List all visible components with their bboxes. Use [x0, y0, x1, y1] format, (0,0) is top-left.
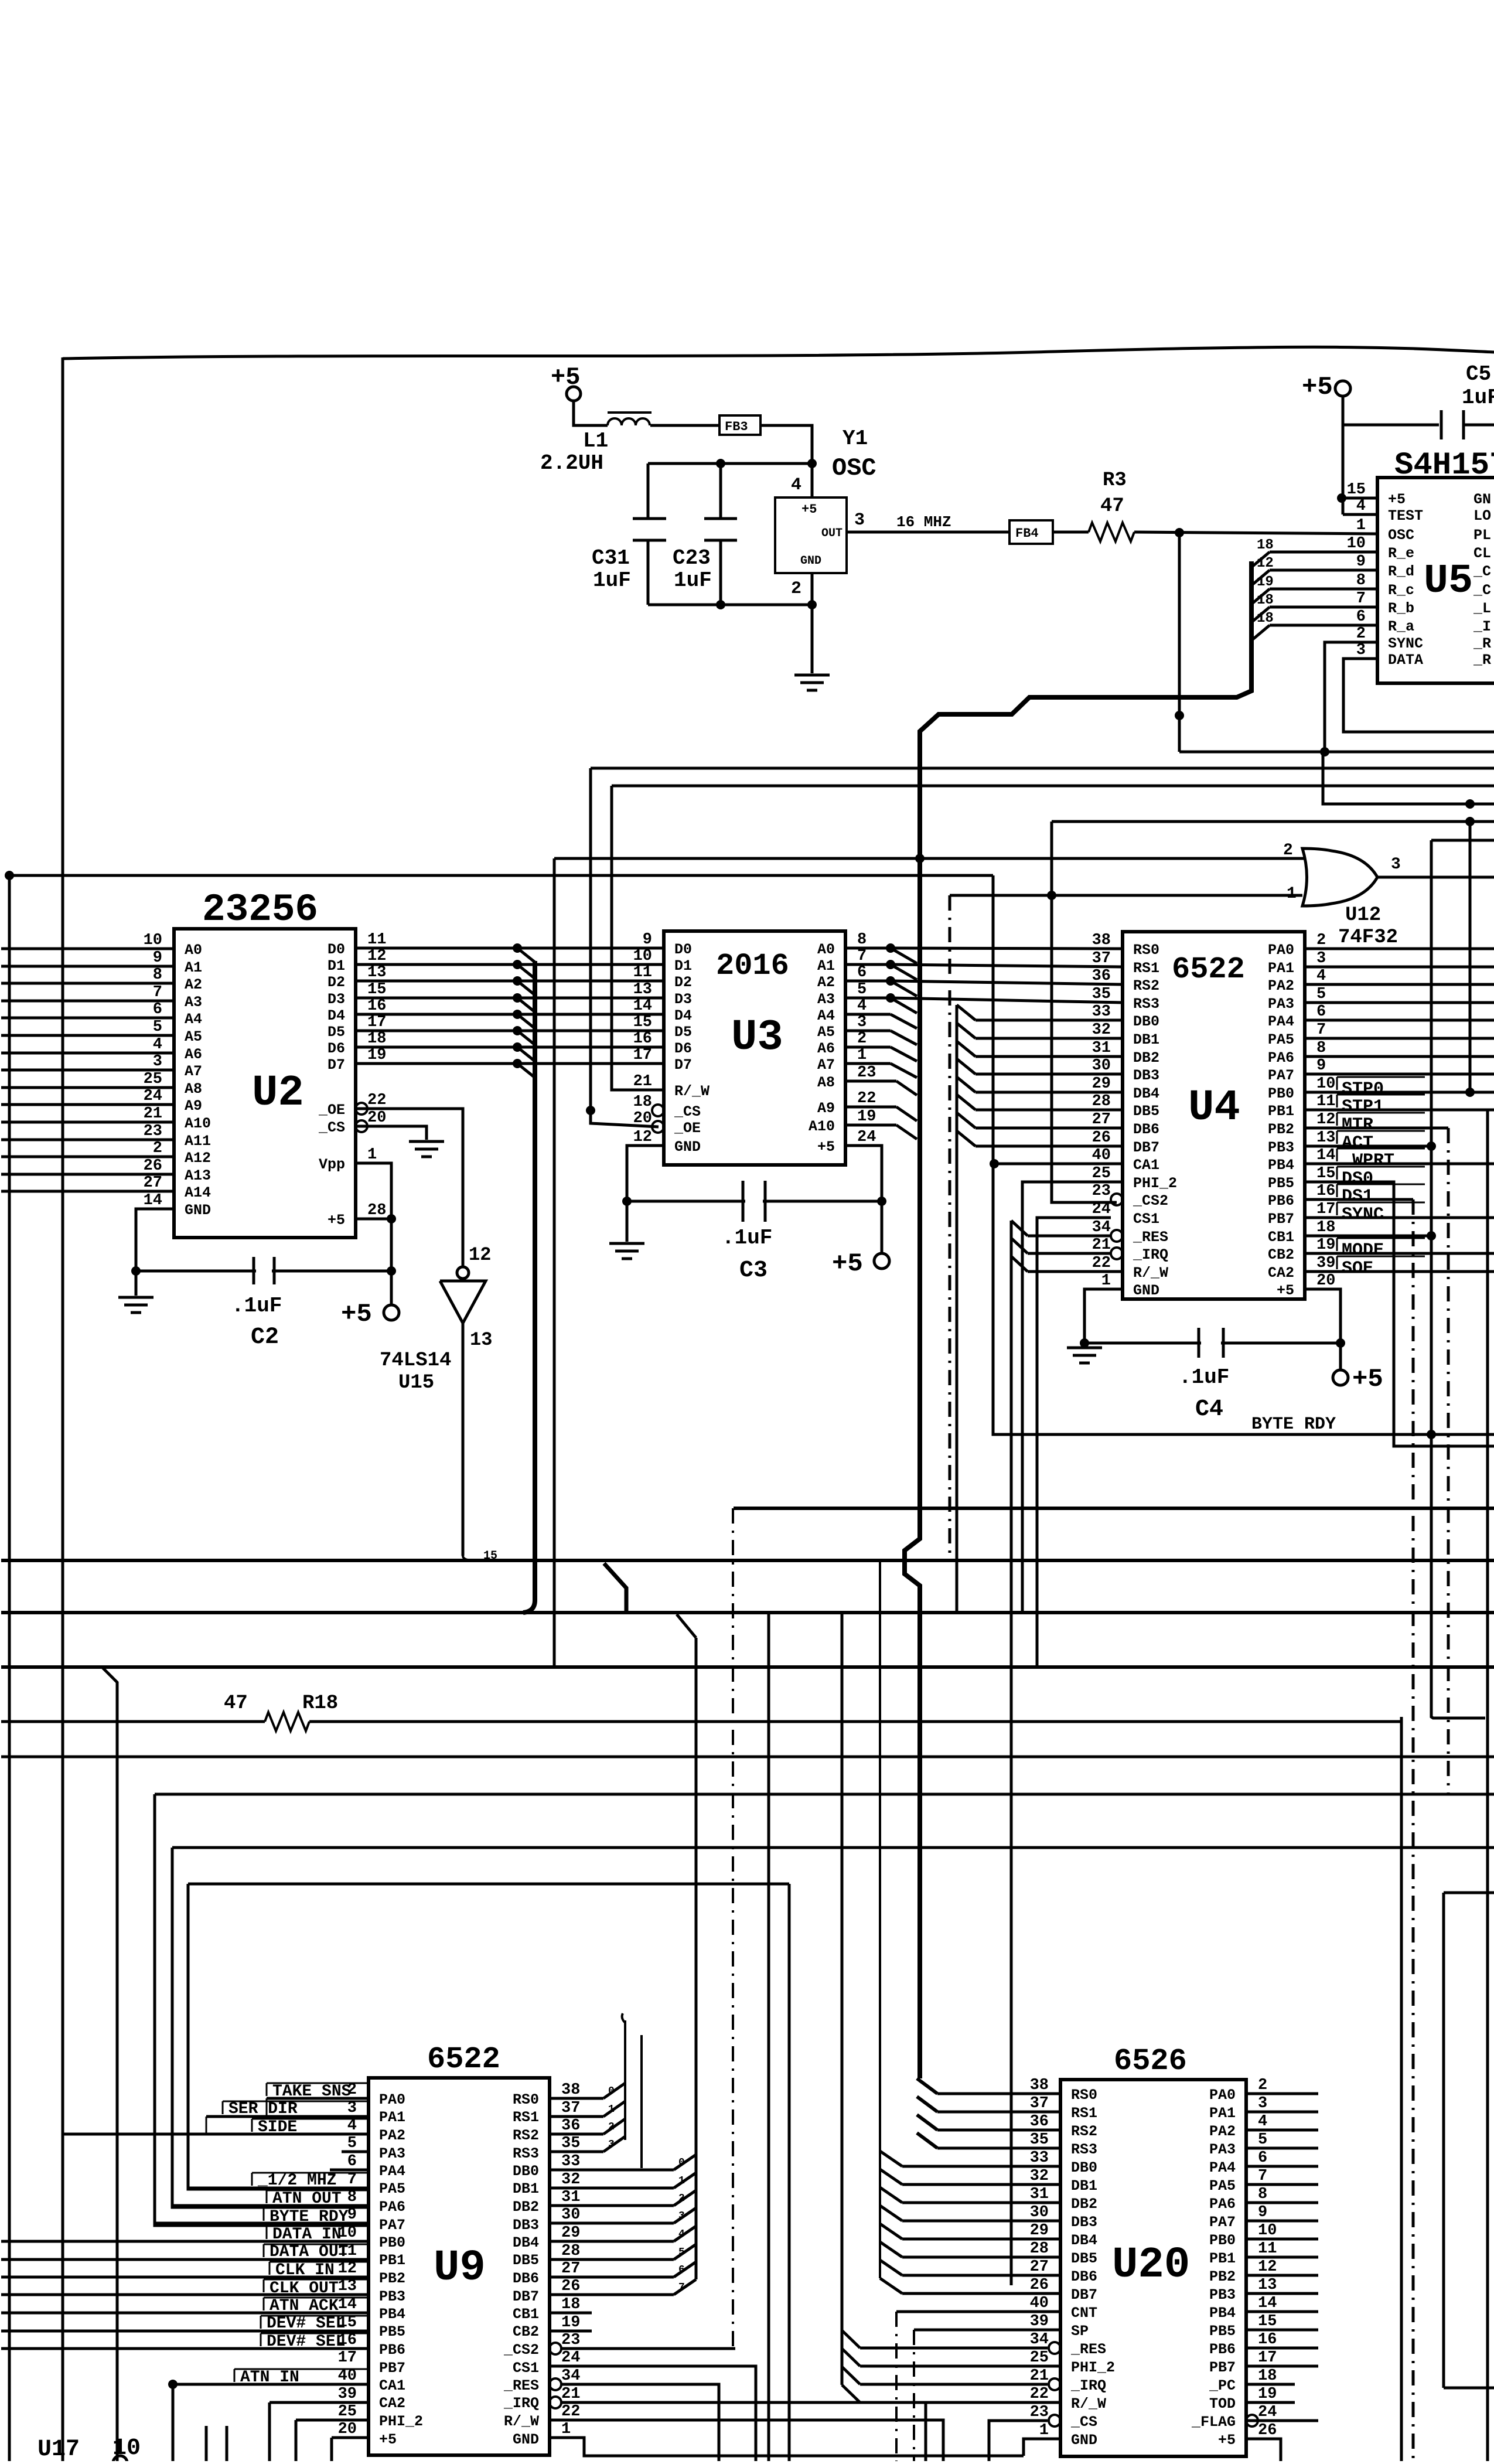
svg-text:1: 1 [367, 1146, 377, 1164]
svg-text:22: 22 [561, 2403, 580, 2421]
svg-text:A8: A8 [817, 1074, 835, 1091]
svg-text:22: 22 [1092, 1255, 1111, 1272]
svg-text:OSC: OSC [832, 454, 876, 482]
svg-text:DB5: DB5 [1071, 2250, 1097, 2267]
svg-text:13: 13 [367, 964, 386, 981]
svg-text:2: 2 [1283, 841, 1293, 860]
svg-text:19: 19 [857, 1108, 876, 1126]
svg-text:4: 4 [1258, 2113, 1267, 2131]
svg-text:SP: SP [1071, 2323, 1089, 2340]
svg-text:28: 28 [561, 2243, 580, 2260]
svg-text:D0: D0 [674, 941, 692, 958]
svg-text:21: 21 [633, 1073, 652, 1090]
svg-text:PA3: PA3 [1209, 2141, 1236, 2158]
svg-text:CB2: CB2 [1268, 1246, 1294, 1263]
svg-text:PA0: PA0 [1209, 2087, 1236, 2104]
svg-text:PB7: PB7 [379, 2360, 405, 2377]
svg-text:26: 26 [1258, 2422, 1277, 2439]
svg-text:RS3: RS3 [1071, 2141, 1097, 2158]
svg-text:3: 3 [1356, 642, 1366, 659]
svg-text:2: 2 [1258, 2077, 1267, 2094]
svg-text:_CS2: _CS2 [1133, 1192, 1168, 1209]
svg-text:R_e: R_e [1388, 545, 1414, 562]
svg-text:19: 19 [1257, 574, 1274, 590]
svg-text:R3: R3 [1103, 469, 1127, 492]
svg-text:TEST: TEST [1388, 507, 1423, 524]
svg-text:7: 7 [1316, 1021, 1326, 1039]
svg-text:27: 27 [144, 1174, 162, 1192]
svg-text:DB3: DB3 [1133, 1067, 1159, 1084]
svg-text:.1uF: .1uF [1179, 1365, 1229, 1389]
svg-text:PA5: PA5 [1268, 1031, 1294, 1048]
svg-text:A13: A13 [185, 1167, 211, 1184]
svg-text:35: 35 [1092, 986, 1111, 1003]
svg-text:38: 38 [1030, 2077, 1049, 2094]
svg-text:D2: D2 [674, 974, 692, 991]
svg-text:_R: _R [1473, 635, 1491, 652]
svg-text:Y1: Y1 [842, 427, 868, 451]
svg-text:10: 10 [633, 948, 652, 965]
svg-text:1uF: 1uF [1462, 386, 1494, 410]
svg-text:RS3: RS3 [1133, 996, 1159, 1013]
svg-text:_IRQ: _IRQ [1133, 1246, 1168, 1263]
svg-text:8: 8 [1356, 572, 1366, 589]
svg-text:47: 47 [224, 1692, 248, 1715]
svg-text:PHI_2: PHI_2 [1071, 2359, 1115, 2376]
svg-text:22: 22 [1030, 2385, 1049, 2403]
svg-text:_R: _R [1473, 652, 1491, 669]
svg-text:28: 28 [367, 1202, 386, 1219]
svg-text:CLK OUT: CLK OUT [270, 2279, 339, 2298]
svg-text:+5: +5 [328, 1212, 345, 1229]
svg-text:RS0: RS0 [1071, 2087, 1097, 2104]
svg-text:15: 15 [1258, 2313, 1277, 2330]
svg-text:D0: D0 [328, 941, 345, 958]
svg-text:SER DIR: SER DIR [228, 2100, 298, 2118]
svg-text:9: 9 [1356, 553, 1366, 571]
svg-text:PA5: PA5 [1209, 2177, 1236, 2194]
svg-text:D7: D7 [328, 1057, 345, 1073]
svg-text:15: 15 [1316, 1165, 1335, 1182]
svg-text:BYTE RDY: BYTE RDY [270, 2208, 349, 2226]
svg-text:8: 8 [153, 966, 162, 984]
svg-text:27: 27 [561, 2260, 580, 2278]
svg-text:5: 5 [153, 1018, 162, 1036]
svg-text:25: 25 [1092, 1165, 1111, 1182]
svg-text:DB6: DB6 [513, 2270, 539, 2287]
svg-text:32: 32 [561, 2171, 580, 2189]
svg-text:DB1: DB1 [513, 2180, 539, 2197]
svg-text:SIDE: SIDE [258, 2118, 297, 2136]
svg-text:32: 32 [1092, 1021, 1111, 1039]
svg-text:47: 47 [1100, 495, 1124, 517]
svg-text:16: 16 [1258, 2331, 1277, 2349]
svg-text:3: 3 [854, 510, 865, 530]
svg-text:36: 36 [561, 2117, 580, 2135]
svg-text:_1/2 MHZ: _1/2 MHZ [257, 2172, 336, 2190]
svg-text:A4: A4 [185, 1011, 202, 1028]
svg-text:C2: C2 [251, 1324, 279, 1351]
svg-text:DB0: DB0 [1133, 1013, 1159, 1030]
svg-text:25: 25 [144, 1071, 162, 1088]
svg-text:12: 12 [469, 1244, 491, 1266]
svg-text:A3: A3 [185, 994, 202, 1011]
svg-text:A9: A9 [817, 1100, 835, 1117]
svg-text:OSC: OSC [1388, 527, 1414, 544]
svg-text:PA0: PA0 [379, 2091, 405, 2108]
svg-text:A0: A0 [817, 941, 835, 958]
svg-text:23: 23 [561, 2332, 580, 2349]
svg-text:2016: 2016 [716, 949, 789, 983]
svg-text:A1: A1 [185, 959, 202, 976]
svg-text:+5: +5 [1218, 2432, 1236, 2449]
svg-text:A5: A5 [817, 1024, 835, 1041]
svg-text:D1: D1 [328, 957, 345, 974]
svg-text:15: 15 [1347, 481, 1366, 499]
svg-text:4: 4 [1316, 967, 1326, 985]
svg-text:17: 17 [338, 2349, 357, 2367]
svg-text:_RES: _RES [503, 2377, 539, 2394]
svg-text:CB1: CB1 [513, 2306, 539, 2323]
svg-text:23: 23 [144, 1123, 162, 1140]
svg-text:26: 26 [1030, 2276, 1049, 2294]
svg-text:23256: 23256 [202, 888, 318, 932]
svg-text:ACT: ACT [1342, 1133, 1373, 1153]
svg-text:25: 25 [338, 2403, 357, 2421]
svg-text:PA1: PA1 [379, 2109, 405, 2126]
svg-text:16: 16 [633, 1030, 652, 1048]
svg-text:A2: A2 [817, 974, 835, 991]
svg-text:18: 18 [633, 1093, 652, 1111]
svg-text:D6: D6 [674, 1040, 692, 1057]
svg-text:1: 1 [1356, 517, 1366, 534]
svg-text:A6: A6 [817, 1040, 835, 1057]
svg-text:39: 39 [338, 2385, 357, 2403]
svg-text:36: 36 [1092, 967, 1111, 985]
svg-text:D7: D7 [674, 1057, 692, 1073]
svg-text:CA1: CA1 [1133, 1157, 1159, 1174]
svg-text:C23: C23 [673, 546, 711, 570]
svg-text:24: 24 [144, 1088, 162, 1105]
svg-text:R/_W: R/_W [674, 1083, 710, 1100]
svg-text:U15: U15 [398, 1372, 434, 1394]
svg-text:29: 29 [1092, 1075, 1111, 1093]
svg-text:6526: 6526 [1114, 2044, 1187, 2078]
svg-text:13: 13 [1316, 1129, 1335, 1147]
svg-text:U12: U12 [1345, 904, 1381, 926]
svg-text:PB5: PB5 [379, 2323, 405, 2340]
svg-text:20: 20 [338, 2421, 357, 2438]
svg-text:39: 39 [1316, 1255, 1335, 1272]
svg-text:20: 20 [1316, 1272, 1335, 1290]
svg-text:R_b: R_b [1388, 600, 1414, 617]
svg-text:3: 3 [1316, 950, 1326, 967]
svg-text:18: 18 [561, 2296, 580, 2313]
svg-text:1uF: 1uF [593, 568, 631, 592]
svg-text:17: 17 [633, 1047, 652, 1064]
svg-text:1: 1 [1287, 885, 1297, 903]
svg-text:PA6: PA6 [1268, 1049, 1294, 1066]
svg-text:5: 5 [857, 981, 867, 998]
svg-text:PB5: PB5 [1268, 1175, 1294, 1192]
svg-text:15: 15 [633, 1014, 652, 1031]
svg-text:C31: C31 [592, 546, 630, 570]
svg-text:29: 29 [1030, 2222, 1049, 2240]
svg-text:C5: C5 [1466, 362, 1491, 386]
svg-text:FB4: FB4 [1015, 526, 1039, 541]
svg-text:74LS14: 74LS14 [380, 1349, 451, 1372]
svg-text:19: 19 [561, 2314, 580, 2332]
svg-text:11: 11 [367, 931, 386, 949]
svg-text:A0: A0 [185, 942, 202, 959]
svg-text:37: 37 [561, 2100, 580, 2117]
svg-text:DS0: DS0 [1342, 1169, 1373, 1189]
svg-text:1: 1 [857, 1047, 867, 1064]
svg-text:1: 1 [608, 2104, 615, 2115]
svg-text:CL: CL [1473, 545, 1491, 562]
svg-text:DATA: DATA [1388, 652, 1423, 669]
svg-text:DB2: DB2 [1133, 1049, 1159, 1066]
svg-text:11: 11 [633, 964, 652, 981]
svg-text:34: 34 [561, 2367, 580, 2385]
svg-text:16 MHZ: 16 MHZ [896, 513, 951, 531]
svg-text:CS1: CS1 [513, 2360, 539, 2377]
svg-text:.1uF: .1uF [231, 1294, 282, 1318]
svg-text:34: 34 [1030, 2331, 1049, 2349]
svg-text:28: 28 [1030, 2240, 1049, 2258]
svg-text:7: 7 [1258, 2167, 1267, 2185]
svg-text:DB0: DB0 [513, 2163, 539, 2180]
svg-text:2: 2 [791, 579, 801, 599]
svg-text:D1: D1 [674, 957, 692, 974]
svg-text:+5: +5 [341, 1300, 372, 1329]
svg-text:C4: C4 [1195, 1396, 1223, 1423]
svg-text:PB1: PB1 [1209, 2250, 1236, 2267]
svg-text:PA2: PA2 [1268, 977, 1294, 994]
svg-text:R_d: R_d [1388, 563, 1414, 580]
svg-text:2.2UH: 2.2UH [540, 451, 603, 475]
svg-text:+5: +5 [1277, 1282, 1294, 1299]
svg-text:D5: D5 [674, 1024, 692, 1041]
svg-text:22: 22 [857, 1090, 876, 1107]
svg-text:_CS: _CS [1070, 2414, 1097, 2431]
svg-text:DB7: DB7 [1133, 1139, 1159, 1156]
svg-text:PB6: PB6 [379, 2342, 405, 2359]
svg-text:PB4: PB4 [1209, 2305, 1236, 2322]
svg-text:+5: +5 [1302, 373, 1333, 402]
svg-text:8: 8 [1316, 1040, 1326, 1057]
svg-text:_IRQ: _IRQ [1070, 2377, 1106, 2394]
svg-text:SYNC: SYNC [1388, 635, 1423, 652]
svg-text:PB0: PB0 [1209, 2232, 1236, 2249]
svg-text:A5: A5 [185, 1028, 202, 1045]
svg-text:10: 10 [1347, 535, 1366, 553]
svg-text:_OE: _OE [318, 1102, 345, 1119]
svg-text:4: 4 [678, 2228, 685, 2240]
svg-text:SOE: SOE [1342, 1259, 1373, 1279]
svg-text:18: 18 [1257, 611, 1274, 626]
svg-text:CNT: CNT [1071, 2305, 1097, 2322]
svg-text:2: 2 [153, 1140, 162, 1157]
svg-text:6522: 6522 [1172, 952, 1245, 987]
svg-text:29: 29 [561, 2224, 580, 2242]
svg-text:CB2: CB2 [513, 2323, 539, 2340]
svg-text:PB3: PB3 [1209, 2286, 1236, 2303]
svg-text:DB5: DB5 [513, 2252, 539, 2269]
svg-text:30: 30 [561, 2206, 580, 2224]
svg-text:A7: A7 [817, 1057, 835, 1073]
svg-text:6: 6 [1316, 1003, 1326, 1021]
svg-text:2: 2 [857, 1030, 867, 1048]
svg-text:A12: A12 [185, 1150, 211, 1167]
svg-text:DB7: DB7 [513, 2288, 539, 2305]
svg-text:DB7: DB7 [1071, 2286, 1097, 2303]
svg-text:38: 38 [561, 2081, 580, 2099]
svg-text:35: 35 [1030, 2131, 1049, 2149]
svg-text:BYTE RDY: BYTE RDY [1251, 1415, 1336, 1434]
svg-text:3: 3 [678, 2210, 685, 2222]
svg-text:GND: GND [800, 554, 821, 568]
svg-text:36: 36 [1030, 2113, 1049, 2131]
svg-text:PA4: PA4 [1209, 2159, 1236, 2176]
svg-text:25: 25 [1030, 2349, 1049, 2367]
svg-text:DEV# SEL: DEV# SEL [267, 2315, 345, 2333]
svg-text:DATA IN: DATA IN [272, 2226, 342, 2244]
svg-text:STP1: STP1 [1342, 1097, 1384, 1117]
svg-text:40: 40 [1030, 2295, 1049, 2312]
svg-text:_RES: _RES [1133, 1229, 1168, 1246]
svg-text:A10: A10 [809, 1118, 835, 1135]
svg-text:8: 8 [1258, 2186, 1267, 2203]
svg-text:GND: GND [1133, 1282, 1159, 1299]
svg-text:32: 32 [1030, 2167, 1049, 2185]
svg-text:6: 6 [1356, 608, 1366, 626]
svg-text:19: 19 [367, 1047, 386, 1064]
svg-text:A2: A2 [185, 976, 202, 993]
svg-text:12: 12 [1257, 555, 1274, 571]
svg-text:U2: U2 [252, 1069, 304, 1118]
svg-text:U4: U4 [1188, 1083, 1240, 1133]
svg-text:A1: A1 [817, 957, 835, 974]
svg-text:1: 1 [561, 2421, 571, 2438]
svg-text:6: 6 [1258, 2149, 1267, 2167]
svg-text:3: 3 [153, 1053, 162, 1071]
svg-text:PA4: PA4 [379, 2163, 405, 2180]
svg-text:PA2: PA2 [1209, 2123, 1236, 2140]
svg-text:STP0: STP0 [1342, 1079, 1384, 1099]
svg-text:Vpp: Vpp [319, 1156, 345, 1173]
svg-text:_I: _I [1473, 618, 1491, 635]
svg-text:4: 4 [1356, 497, 1366, 515]
svg-text:31: 31 [1030, 2186, 1049, 2203]
svg-text:A3: A3 [817, 991, 835, 1008]
svg-text:U9: U9 [434, 2244, 486, 2293]
svg-text:DB2: DB2 [1071, 2196, 1097, 2213]
svg-text:9: 9 [1258, 2204, 1267, 2221]
svg-text:ATN ACK: ATN ACK [270, 2297, 339, 2315]
svg-text:_L: _L [1473, 600, 1491, 617]
svg-text:PB5: PB5 [1209, 2323, 1236, 2340]
svg-text:10: 10 [112, 2435, 141, 2461]
svg-text:_WPRT: _WPRT [1341, 1151, 1394, 1171]
svg-text:1: 1 [678, 2175, 685, 2187]
svg-text:DB5: DB5 [1133, 1103, 1159, 1120]
svg-text:+5: +5 [1388, 491, 1406, 508]
svg-text:RS1: RS1 [513, 2109, 539, 2126]
svg-text:PB1: PB1 [379, 2252, 405, 2269]
svg-text:18: 18 [1257, 537, 1274, 553]
svg-text:+5: +5 [817, 1139, 835, 1156]
svg-text:D5: D5 [328, 1024, 345, 1041]
svg-text:+5: +5 [1352, 1365, 1383, 1394]
svg-text:27: 27 [1092, 1111, 1111, 1129]
svg-text:U17: U17 [37, 2436, 80, 2461]
svg-text:GND: GND [674, 1139, 701, 1156]
svg-text:15: 15 [367, 981, 386, 998]
svg-text:13: 13 [470, 1329, 492, 1351]
svg-text:RS1: RS1 [1133, 960, 1159, 977]
svg-text:PA7: PA7 [1268, 1067, 1294, 1084]
svg-text:14: 14 [144, 1192, 162, 1209]
svg-text:35: 35 [561, 2135, 580, 2152]
svg-text:LO: LO [1473, 507, 1491, 524]
svg-text:38: 38 [1092, 932, 1111, 949]
svg-text:PA5: PA5 [379, 2180, 405, 2197]
svg-text:0: 0 [608, 2085, 615, 2097]
svg-text:_PC: _PC [1209, 2377, 1236, 2394]
svg-text:4: 4 [857, 997, 867, 1015]
svg-text:PB2: PB2 [379, 2270, 405, 2287]
svg-text:PB7: PB7 [1268, 1211, 1294, 1228]
svg-text:+5: +5 [801, 502, 817, 517]
svg-text:_RES: _RES [1070, 2341, 1106, 2358]
svg-text:18: 18 [1257, 592, 1274, 608]
svg-text:PL: PL [1473, 527, 1491, 544]
svg-text:A4: A4 [817, 1007, 835, 1024]
svg-text:2: 2 [678, 2193, 685, 2204]
svg-text:28: 28 [1092, 1093, 1111, 1110]
svg-text:17: 17 [1316, 1201, 1335, 1218]
svg-text:1uF: 1uF [674, 568, 712, 592]
svg-text:RS2: RS2 [1071, 2123, 1097, 2140]
svg-text:R/_W: R/_W [1071, 2395, 1106, 2412]
svg-text:6522: 6522 [427, 2042, 500, 2077]
svg-text:5: 5 [1258, 2131, 1267, 2149]
svg-text:23: 23 [857, 1064, 876, 1082]
svg-text:PB4: PB4 [379, 2306, 405, 2323]
svg-text:30: 30 [1092, 1057, 1111, 1075]
svg-text:+5: +5 [379, 2431, 397, 2448]
svg-text:PA2: PA2 [379, 2127, 405, 2144]
svg-text:13: 13 [1258, 2276, 1277, 2294]
svg-text:MODE: MODE [1342, 1240, 1384, 1260]
svg-text:GND: GND [513, 2431, 539, 2448]
svg-text:11: 11 [1316, 1093, 1335, 1110]
svg-text:A14: A14 [185, 1184, 211, 1201]
svg-text:30: 30 [1030, 2204, 1049, 2221]
svg-text:A6: A6 [185, 1046, 202, 1063]
svg-text:PB0: PB0 [1268, 1085, 1294, 1102]
svg-text:11: 11 [1258, 2240, 1277, 2258]
svg-text:DB3: DB3 [513, 2217, 539, 2234]
svg-text:17: 17 [1258, 2349, 1277, 2367]
svg-text:RS2: RS2 [1133, 977, 1159, 994]
svg-text:_CS: _CS [674, 1103, 701, 1120]
svg-text:24: 24 [1258, 2404, 1277, 2421]
svg-text:U3: U3 [731, 1013, 783, 1062]
svg-text:33: 33 [561, 2153, 580, 2170]
svg-text:31: 31 [1092, 1040, 1111, 1057]
